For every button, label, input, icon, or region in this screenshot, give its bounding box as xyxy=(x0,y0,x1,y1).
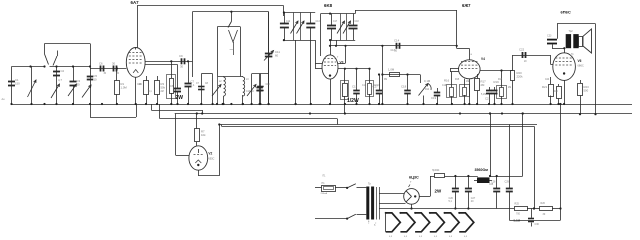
svg-text:4,7: 4,7 xyxy=(58,78,62,82)
svg-text:C12: C12 xyxy=(286,21,291,23)
svg-text:C25: C25 xyxy=(489,184,494,186)
svg-text:R14: R14 xyxy=(425,89,430,91)
svg-text:5,1M: 5,1M xyxy=(481,94,486,96)
svg-text:C6: C6 xyxy=(99,62,103,66)
svg-text:V3: V3 xyxy=(340,61,344,65)
svg-text:C10: C10 xyxy=(266,84,271,86)
svg-text:5,1: 5,1 xyxy=(449,200,453,203)
svg-text:2M: 2M xyxy=(508,87,511,89)
svg-text:C7: C7 xyxy=(196,83,200,85)
svg-text:3560Ом: 3560Ом xyxy=(475,168,489,172)
svg-text:6Ж7: 6Ж7 xyxy=(462,3,471,8)
svg-text:700: 700 xyxy=(516,213,521,216)
svg-text:2W: 2W xyxy=(176,95,184,101)
svg-text:C10: C10 xyxy=(246,91,251,93)
svg-text:V2: V2 xyxy=(208,152,212,156)
svg-text:30: 30 xyxy=(77,83,81,87)
svg-text:Тр2: Тр2 xyxy=(569,30,574,33)
svg-text:30: 30 xyxy=(543,213,546,216)
svg-text:R21: R21 xyxy=(542,85,548,89)
svg-text:R24: R24 xyxy=(435,169,440,172)
svg-text:Тр: Тр xyxy=(571,54,574,56)
svg-text:10: 10 xyxy=(94,78,98,82)
svg-text:30: 30 xyxy=(117,73,120,75)
svg-text:L2: L2 xyxy=(219,81,222,83)
svg-text:2M: 2M xyxy=(161,91,164,93)
svg-text:C24: C24 xyxy=(545,79,550,81)
svg-text:5,1M: 5,1M xyxy=(514,219,521,223)
svg-text:R26: R26 xyxy=(541,202,546,205)
svg-text:30: 30 xyxy=(180,65,184,69)
svg-text:6,3: 6,3 xyxy=(389,236,393,238)
svg-text:C17: C17 xyxy=(373,85,379,89)
svg-text:C23: C23 xyxy=(547,35,552,38)
svg-text:C9: C9 xyxy=(179,54,183,58)
svg-text:6,3: 6,3 xyxy=(404,236,408,238)
svg-text:0,1M: 0,1M xyxy=(424,79,431,83)
svg-text:R16: R16 xyxy=(444,79,450,83)
svg-text:R18: R18 xyxy=(498,79,503,81)
svg-text:C18: C18 xyxy=(355,21,360,23)
svg-text:6,3: 6,3 xyxy=(419,236,423,238)
svg-text:тип: тип xyxy=(230,49,234,51)
svg-text:a: a xyxy=(368,221,370,223)
svg-text:V6: V6 xyxy=(578,59,582,63)
svg-text:0,1: 0,1 xyxy=(149,91,153,93)
svg-text:1,0M: 1,0M xyxy=(388,68,395,72)
svg-text:Г: Г xyxy=(337,57,339,59)
svg-text:60: 60 xyxy=(275,54,279,58)
svg-text:30: 30 xyxy=(112,62,116,66)
svg-text:6,3: 6,3 xyxy=(464,236,468,238)
svg-text:C8: C8 xyxy=(205,83,209,85)
svg-text:6Ф6C: 6Ф6C xyxy=(578,65,584,68)
svg-text:2W: 2W xyxy=(435,189,442,194)
svg-text:20: 20 xyxy=(471,200,474,203)
svg-text:a: a xyxy=(471,54,473,56)
svg-text:50k: 50k xyxy=(161,86,166,90)
svg-text:150: 150 xyxy=(15,82,20,86)
svg-text:R9: R9 xyxy=(384,79,388,81)
svg-text:2M: 2M xyxy=(481,83,486,87)
svg-text:C30: C30 xyxy=(535,223,540,226)
svg-text:1,0M: 1,0M xyxy=(121,86,128,90)
svg-text:6Ц3C: 6Ц3C xyxy=(409,175,419,179)
svg-text:C: C xyxy=(252,89,254,93)
svg-text:C15: C15 xyxy=(352,85,358,89)
svg-text:400: 400 xyxy=(554,91,559,93)
svg-text:500: 500 xyxy=(584,89,589,93)
svg-text:C2: C2 xyxy=(61,69,65,73)
svg-text:6,3: 6,3 xyxy=(434,236,438,238)
svg-text:C21: C21 xyxy=(485,97,491,101)
svg-text:1M: 1M xyxy=(466,81,469,83)
svg-text:R15: R15 xyxy=(455,79,460,81)
svg-text:П1: П1 xyxy=(323,176,327,178)
svg-text:T: T xyxy=(410,182,412,184)
svg-text:П1: П1 xyxy=(322,182,326,185)
svg-text:C22: C22 xyxy=(519,48,525,52)
svg-text:6E5C: 6E5C xyxy=(208,158,214,161)
svg-text:C19: C19 xyxy=(442,85,447,87)
svg-text:L3: L3 xyxy=(246,79,249,81)
svg-text:R25: R25 xyxy=(515,203,520,206)
svg-text:Тр: Тр xyxy=(368,182,371,186)
svg-text:C14: C14 xyxy=(391,50,396,52)
svg-text:6,3: 6,3 xyxy=(449,236,453,238)
svg-text:30: 30 xyxy=(104,73,107,75)
svg-text:C14: C14 xyxy=(394,39,400,43)
svg-text:V4: V4 xyxy=(481,57,485,61)
svg-text:6П6C: 6П6C xyxy=(561,10,571,15)
svg-text:1/2W: 1/2W xyxy=(347,98,359,104)
svg-text:C29: C29 xyxy=(505,181,510,184)
svg-text:C19: C19 xyxy=(431,96,437,100)
svg-text:C18: C18 xyxy=(401,85,407,89)
svg-text:20: 20 xyxy=(524,61,527,63)
svg-text:220k: 220k xyxy=(517,75,524,79)
svg-text:6K8: 6K8 xyxy=(324,3,333,8)
svg-text:6A7: 6A7 xyxy=(131,0,140,5)
svg-text:б: б xyxy=(374,225,376,227)
svg-text:0,1: 0,1 xyxy=(191,83,195,87)
svg-text:R2: R2 xyxy=(139,84,143,86)
svg-text:10k: 10k xyxy=(201,133,206,137)
svg-text:Ан: Ан xyxy=(2,98,6,101)
svg-text:C17: C17 xyxy=(333,21,338,23)
svg-text:C13: C13 xyxy=(316,21,321,23)
svg-text:C16: C16 xyxy=(362,85,367,87)
svg-text:250мА: 250мА xyxy=(321,192,328,195)
